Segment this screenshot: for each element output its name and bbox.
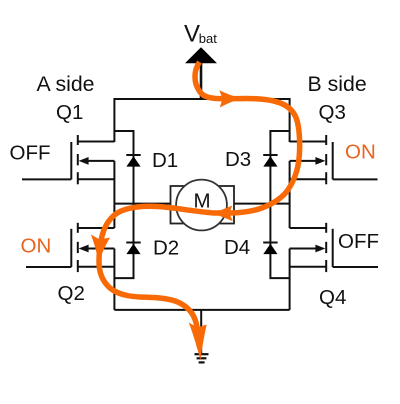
wire ground stem: [200, 310, 202, 353]
wire Q2 source to bottom rail: [113, 249, 115, 310]
wire motor rail to Q2 drain: [113, 204, 115, 228]
wire top rail: [114, 99, 289, 142]
current path arrowhead down (Q2): [91, 235, 110, 263]
wire Q3 source to motor rail: [289, 161, 291, 204]
svg-text:Q4: Q4: [319, 286, 346, 309]
svg-text:OFF: OFF: [338, 230, 379, 253]
diode D4: [263, 243, 277, 255]
svg-text:bat: bat: [199, 31, 217, 46]
svg-text:Q2: Q2: [58, 282, 85, 305]
current path arrowhead left (motor): [212, 206, 233, 222]
svg-text:D3: D3: [225, 148, 251, 171]
wire D3-D4 branch vertical: [270, 131, 289, 278]
transistor Q2: [26, 223, 114, 272]
motor M: [171, 180, 235, 231]
svg-text:A side: A side: [37, 72, 95, 96]
svg-text:Q1: Q1: [56, 101, 83, 124]
svg-text:OFF: OFF: [10, 142, 51, 165]
diode D2: [126, 243, 140, 255]
transistor Q3: [290, 135, 378, 184]
diode D3: [263, 155, 277, 167]
current path wire (orange): [99, 62, 300, 347]
svg-text:D2: D2: [153, 237, 179, 260]
svg-text:D1: D1: [152, 149, 178, 172]
wire Q4 source to bottom rail: [289, 249, 291, 310]
svg-text:V: V: [184, 21, 200, 48]
current path arrowhead right (top): [219, 90, 241, 107]
wire bottom rail: [114, 309, 289, 311]
ground: [195, 354, 209, 362]
diode D1: [126, 155, 140, 167]
wire Q1 source to motor rail: [113, 161, 115, 204]
svg-text:Q3: Q3: [319, 101, 346, 124]
current path arrowhead down (ground): [189, 323, 207, 361]
Vbat supply arrow: [185, 47, 217, 63]
svg-text:B side: B side: [308, 72, 367, 96]
label Vbat: [184, 21, 217, 48]
wire motor rail right: [233, 203, 290, 205]
wire motor rail left: [114, 203, 171, 205]
svg-text:ON: ON: [21, 235, 52, 258]
transistor Q1: [22, 135, 114, 184]
wire D1-D2 branch vertical: [114, 131, 133, 278]
transistor Q4: [290, 223, 378, 272]
wire motor rail to Q4 drain: [289, 204, 291, 228]
svg-text:ON: ON: [345, 141, 376, 164]
svg-text:D4: D4: [224, 236, 250, 259]
wire Vbat stem: [200, 62, 203, 99]
